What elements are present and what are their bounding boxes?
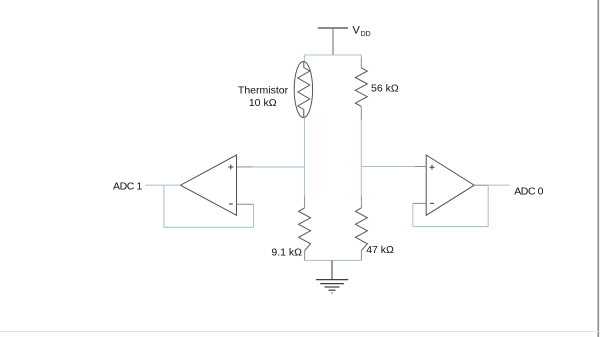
svg-text:Thermistor: Thermistor — [238, 85, 289, 97]
svg-text:56 kΩ: 56 kΩ — [371, 83, 399, 95]
svg-text:V: V — [353, 25, 361, 37]
svg-text:10 kΩ: 10 kΩ — [249, 97, 277, 109]
svg-text:DD: DD — [361, 31, 371, 38]
svg-text:47 kΩ: 47 kΩ — [366, 244, 394, 256]
svg-text:ADC 1: ADC 1 — [113, 181, 142, 193]
svg-text:9.1 kΩ: 9.1 kΩ — [271, 246, 302, 258]
svg-text:ADC 0: ADC 0 — [514, 185, 543, 197]
